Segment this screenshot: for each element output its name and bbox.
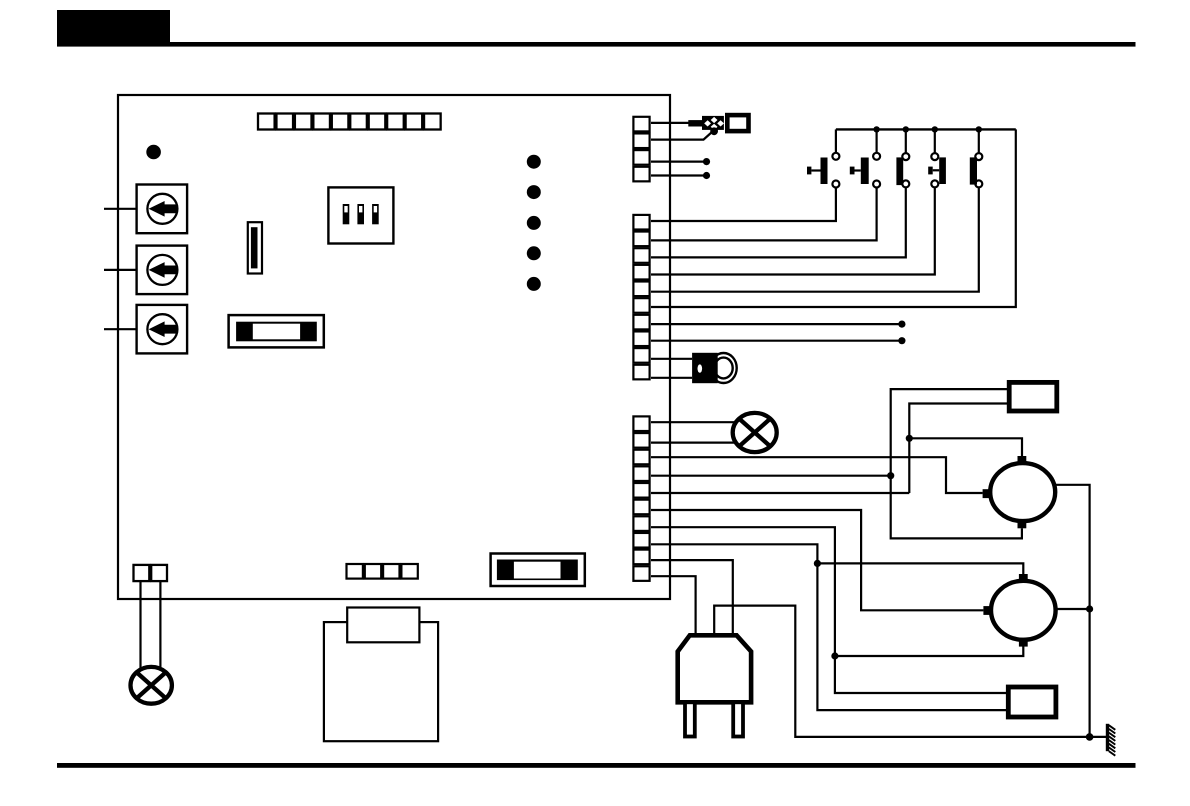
node dot C7 xyxy=(831,652,838,659)
terminal block TB-D (2 cells, bottom left) xyxy=(134,565,168,581)
motor M2 xyxy=(983,574,1055,647)
rotary switch RS1 xyxy=(137,185,188,234)
wire TB-C6 to motor M2 left xyxy=(651,510,983,610)
contact SW3 xyxy=(651,129,909,257)
wire TB-C1 to lamp LP1 xyxy=(651,421,737,423)
terminal block TB-C (10 cells, lower right) xyxy=(633,416,649,580)
DIP switch SW-DIP xyxy=(328,187,393,243)
transformer TR1 body xyxy=(324,622,438,741)
wire stub to RS3 xyxy=(104,328,137,330)
terminal block TB-E (4 cells, bottom centre) xyxy=(347,564,418,579)
earth ground symbol xyxy=(1106,724,1116,756)
capacitor C1 xyxy=(1009,382,1057,411)
wire TB-A2 to antenna shield xyxy=(651,132,712,140)
wire TB-C9 to plug pin3 xyxy=(651,560,733,635)
wire TB-A4 open end xyxy=(651,174,707,176)
pushbutton SW1 xyxy=(651,129,839,221)
wire TB-C10 to plug pin1 xyxy=(651,576,696,635)
wire M2 right to common xyxy=(1055,608,1089,610)
wire TB-A3 open end xyxy=(651,161,707,163)
antenna coax braid xyxy=(702,116,724,130)
node dot M1 top net xyxy=(906,435,913,442)
key switch KS1 xyxy=(692,353,737,383)
wire stub to RS2 xyxy=(104,269,137,271)
bus junction dots xyxy=(873,126,982,132)
node dot B8 xyxy=(898,337,905,344)
wire M2 top terminal xyxy=(817,563,1023,574)
LED DL1 (top-left) xyxy=(146,145,161,160)
lamp LP2 xyxy=(131,667,172,704)
motor M1 xyxy=(983,456,1056,528)
wire stub to RS1 xyxy=(104,208,137,210)
top pin-header strip J1 (10 cells) xyxy=(258,114,441,130)
rotary switch RS2 xyxy=(137,246,188,295)
wire M1 top terminal xyxy=(909,438,1022,456)
wire M2 bottom terminal xyxy=(835,646,1023,656)
header rule xyxy=(57,42,1136,47)
transformer TR1 top cap xyxy=(347,608,419,643)
node dot C8 xyxy=(814,560,821,567)
wire TB-C5 to motor M1 top net xyxy=(651,492,909,494)
wire TB-C3 to motor M1 left xyxy=(651,457,983,493)
rotary switch RS3 xyxy=(137,305,188,354)
header title block xyxy=(57,10,170,46)
bus end wire to TB-B6 xyxy=(651,129,1016,307)
antenna coax inner conductor xyxy=(688,120,703,126)
node dot M2 right xyxy=(1086,605,1093,612)
terminal block TB-A (4 cells, top right) xyxy=(633,117,649,182)
node dot C4 xyxy=(887,472,894,479)
wire TB-A1 to antenna xyxy=(651,122,689,124)
wire TB-D1 to lamp LP2 xyxy=(139,582,141,669)
lamp LP1 xyxy=(733,413,777,452)
control board outline xyxy=(118,95,670,599)
vertical connector J2 xyxy=(248,222,262,273)
node dot A3 xyxy=(703,158,710,165)
wire TB-B9 to key switch xyxy=(651,358,692,360)
wire TB-C8 to motor M2 top / C2 xyxy=(651,544,1008,710)
capacitor C1 pin2 wire xyxy=(909,404,1009,494)
node dot A4 xyxy=(703,172,710,179)
pushbutton SW2 xyxy=(651,129,880,240)
LED column DL2-DL6 xyxy=(527,155,541,291)
wire M1 right to common xyxy=(1055,485,1090,737)
bus wire over pushbutton row xyxy=(836,128,1016,130)
wire TB-B8 open end xyxy=(651,340,902,342)
fuse holder F1 xyxy=(229,315,324,347)
node dot ground xyxy=(1086,733,1094,741)
wire TB-B7 open end xyxy=(651,323,902,325)
capacitor C2 xyxy=(1008,687,1056,717)
terminal block TB-B (10 cells, middle right) xyxy=(633,215,649,379)
wire plug pin2 to ground xyxy=(714,606,1106,737)
wire TB-C4 to capacitor C1 net xyxy=(651,475,891,477)
wire TB-C2 to lamp LP1 xyxy=(651,442,737,444)
wire TB-C7 to motor M2 bottom / C2 xyxy=(651,527,1008,693)
capacitor C1 pin1 wire xyxy=(891,389,1022,538)
mains plug P1 xyxy=(678,635,751,736)
wire TB-B10 to key switch xyxy=(651,377,692,379)
footer rule xyxy=(57,763,1136,768)
pushbutton SW4 xyxy=(651,129,946,274)
wire TB-D2 to lamp LP2 xyxy=(159,582,161,668)
contact SW5 xyxy=(651,129,982,291)
antenna shield node dot xyxy=(710,127,718,135)
antenna connector shell xyxy=(727,115,748,131)
node dot B7 xyxy=(898,321,905,328)
fuse holder F2 xyxy=(491,554,585,587)
